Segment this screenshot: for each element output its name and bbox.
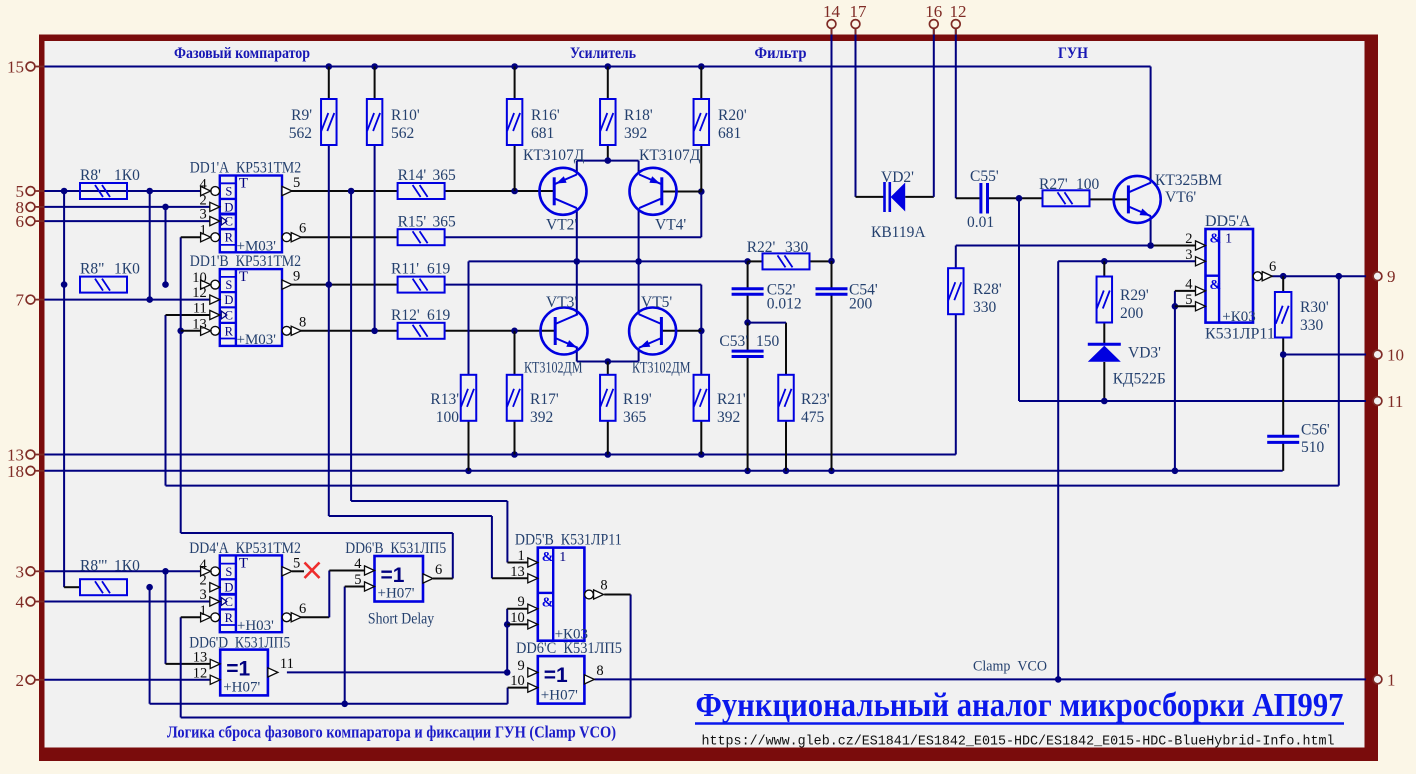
svg-text:R13': R13' [430, 391, 459, 408]
svg-text:=1: =1 [381, 564, 405, 587]
svg-text:R21': R21' [717, 391, 746, 408]
svg-text:+К03: +К03 [1222, 309, 1255, 325]
svg-text:6: 6 [16, 212, 25, 231]
svg-text:DD1'B КР531ТМ2: DD1'B КР531ТМ2 [190, 253, 301, 270]
svg-text:DD5'A: DD5'A [1205, 213, 1251, 230]
svg-text:1: 1 [518, 548, 525, 564]
svg-text:КТ3107Д: КТ3107Д [523, 147, 585, 164]
svg-text:11: 11 [280, 656, 294, 672]
svg-text:+Н03': +Н03' [237, 618, 274, 634]
svg-text:R23': R23' [801, 391, 830, 408]
svg-text:330: 330 [1300, 317, 1324, 334]
svg-text:КТ3107Д: КТ3107Д [639, 147, 701, 164]
svg-text:392: 392 [530, 409, 553, 426]
svg-text:13: 13 [510, 564, 525, 580]
svg-text:КТ325ВМ: КТ325ВМ [1155, 172, 1222, 189]
svg-text:R20': R20' [718, 107, 747, 124]
svg-text:8: 8 [596, 663, 603, 679]
svg-text:10: 10 [1387, 346, 1404, 365]
svg-text:11: 11 [1387, 392, 1403, 411]
svg-text:4: 4 [1185, 276, 1193, 292]
svg-text:10: 10 [510, 673, 525, 689]
svg-text:3: 3 [1185, 247, 1192, 263]
svg-text:1: 1 [1387, 670, 1396, 689]
svg-text:ГУН: ГУН [1058, 45, 1088, 62]
svg-text:510: 510 [1301, 439, 1325, 456]
svg-text:DD4'A КР531ТМ2: DD4'A КР531ТМ2 [189, 540, 301, 557]
svg-text:9: 9 [293, 269, 300, 285]
svg-text:R10': R10' [391, 107, 420, 124]
svg-text:Фазовый компаратор: Фазовый компаратор [174, 45, 310, 62]
svg-text:VT2': VT2' [546, 217, 577, 234]
svg-text:8: 8 [299, 314, 306, 330]
svg-text:DD1'A КР531ТМ2: DD1'A КР531ТМ2 [190, 160, 301, 177]
svg-text:DD6'C К531ЛП5: DD6'C К531ЛП5 [516, 640, 622, 657]
svg-text:1К0: 1К0 [114, 167, 140, 184]
svg-text:9: 9 [518, 594, 525, 610]
svg-text:+М03': +М03' [237, 332, 277, 348]
svg-text:3: 3 [16, 562, 25, 581]
svg-text:VT3': VT3' [546, 294, 577, 311]
svg-text:Логика сброса фазового компара: Логика сброса фазового компаратора и фик… [167, 723, 616, 742]
svg-text:10: 10 [192, 270, 207, 286]
svg-text:13: 13 [192, 316, 207, 332]
svg-text:Фильтр: Фильтр [755, 45, 807, 62]
svg-text:365: 365 [433, 167, 457, 184]
svg-text:3: 3 [200, 587, 207, 603]
svg-text:5: 5 [293, 555, 300, 571]
svg-text:+Н07': +Н07' [223, 679, 260, 695]
svg-text:2: 2 [16, 671, 25, 690]
svg-text:T: T [239, 269, 248, 285]
svg-text:12: 12 [950, 2, 967, 21]
svg-text:+М03': +М03' [237, 238, 277, 254]
svg-text:R27': R27' [1039, 176, 1068, 193]
svg-text:D: D [224, 581, 233, 595]
svg-text:К531ЛР11: К531ЛР11 [1205, 326, 1275, 343]
svg-text:VT6': VT6' [1165, 189, 1196, 206]
svg-text:DD6'B К531ЛП5: DD6'B К531ЛП5 [345, 540, 446, 557]
svg-text:R30': R30' [1300, 299, 1329, 316]
svg-text:330: 330 [973, 299, 997, 316]
svg-text:365: 365 [433, 214, 457, 231]
svg-text:17: 17 [850, 2, 868, 21]
svg-text:200: 200 [1120, 305, 1144, 322]
svg-text:C53': C53' [719, 333, 748, 350]
svg-text:+Н07': +Н07' [541, 688, 578, 704]
svg-text:DD6'D К531ЛП5: DD6'D К531ЛП5 [189, 634, 290, 651]
svg-text:0.012: 0.012 [767, 296, 802, 313]
svg-text:200: 200 [849, 296, 873, 313]
svg-text:11: 11 [193, 301, 207, 317]
svg-text:R17': R17' [530, 391, 559, 408]
svg-text:100: 100 [436, 409, 460, 426]
svg-text:R11': R11' [391, 261, 419, 278]
svg-text:R28': R28' [973, 281, 1002, 298]
svg-text:R: R [225, 324, 234, 338]
svg-text:Clamp VCO: Clamp VCO [973, 659, 1047, 675]
svg-text:1: 1 [200, 603, 207, 619]
svg-text:6: 6 [299, 601, 306, 617]
svg-text:365: 365 [623, 409, 647, 426]
svg-text:475: 475 [801, 409, 825, 426]
svg-text:1: 1 [200, 223, 207, 239]
svg-text:1К0: 1К0 [114, 558, 140, 575]
svg-text:681: 681 [531, 125, 554, 142]
svg-text:13: 13 [193, 649, 208, 665]
svg-text:S: S [225, 565, 232, 579]
svg-text:5: 5 [354, 572, 361, 588]
svg-text:5: 5 [1185, 292, 1192, 308]
svg-text:VD2': VD2' [881, 169, 914, 186]
svg-text:КТ3102ДМ: КТ3102ДМ [524, 359, 583, 376]
svg-text:https://www.gleb.cz/ES1841/ES1: https://www.gleb.cz/ES1841/ES1842_E015-H… [702, 735, 1335, 750]
svg-text:S: S [225, 278, 232, 292]
svg-text:T: T [239, 555, 248, 571]
svg-text:R29': R29' [1120, 287, 1149, 304]
svg-text:R9': R9' [291, 107, 312, 124]
svg-text:C55': C55' [970, 168, 999, 185]
svg-text:R18': R18' [624, 107, 653, 124]
svg-text:619: 619 [427, 307, 451, 324]
svg-text:16: 16 [925, 2, 942, 21]
svg-text:=1: =1 [226, 658, 250, 681]
svg-text:КТ3102ДМ: КТ3102ДМ [632, 359, 691, 376]
svg-text:18: 18 [7, 462, 24, 481]
svg-text:7: 7 [16, 291, 25, 310]
svg-text:392: 392 [717, 409, 740, 426]
svg-text:6: 6 [1269, 259, 1276, 275]
svg-text:+Н07': +Н07' [378, 586, 415, 602]
svg-text:R22': R22' [747, 239, 776, 256]
svg-text:9: 9 [518, 658, 525, 674]
svg-text:6: 6 [299, 221, 306, 237]
svg-text:681: 681 [718, 125, 741, 142]
svg-text:10: 10 [510, 610, 525, 626]
svg-text:3: 3 [200, 207, 207, 223]
svg-text:Short Delay: Short Delay [368, 611, 434, 628]
svg-text:S: S [225, 185, 232, 199]
svg-text:R19': R19' [623, 391, 652, 408]
svg-text:100: 100 [1076, 176, 1100, 193]
svg-text:4: 4 [200, 557, 208, 573]
svg-text:D: D [224, 293, 233, 307]
svg-text:6: 6 [435, 562, 442, 578]
svg-text:562: 562 [289, 125, 312, 142]
svg-text:392: 392 [624, 125, 647, 142]
svg-text:5: 5 [293, 175, 300, 191]
svg-text:R8": R8" [80, 261, 104, 278]
svg-text:R8': R8' [80, 167, 101, 184]
svg-text:T: T [239, 176, 248, 192]
svg-text:562: 562 [391, 125, 414, 142]
svg-text:150: 150 [756, 333, 780, 350]
svg-text:619: 619 [427, 261, 451, 278]
svg-text:VT5': VT5' [641, 294, 672, 311]
svg-text:4: 4 [354, 556, 362, 572]
svg-text:R14': R14' [398, 167, 427, 184]
svg-text:&: & [542, 550, 554, 565]
svg-text:VT4': VT4' [655, 217, 686, 234]
svg-text:VD3': VD3' [1128, 345, 1161, 362]
svg-text:4: 4 [16, 593, 25, 612]
svg-text:R: R [225, 611, 234, 625]
svg-text:R16': R16' [531, 107, 560, 124]
svg-text:2: 2 [1185, 231, 1192, 247]
svg-text:15: 15 [7, 58, 24, 77]
svg-text:1К0: 1К0 [114, 261, 140, 278]
svg-text:&: & [542, 595, 554, 610]
svg-text:КД522Б: КД522Б [1113, 371, 1166, 388]
svg-text:R8"': R8"' [80, 558, 107, 575]
svg-text:=1: =1 [544, 664, 568, 687]
svg-text:&: & [1210, 278, 1222, 293]
svg-text:12: 12 [193, 665, 208, 681]
svg-text:R: R [225, 231, 234, 245]
svg-text:1: 1 [1225, 232, 1232, 247]
svg-text:&: & [1210, 232, 1222, 247]
svg-text:C56': C56' [1301, 422, 1330, 439]
svg-text:1: 1 [559, 550, 566, 565]
svg-text:DD5'B К531ЛР11: DD5'B К531ЛР11 [515, 532, 622, 549]
svg-text:Функциональный аналог микросбо: Функциональный аналог микросборки АП997 [696, 687, 1344, 724]
svg-text:330: 330 [785, 239, 809, 256]
svg-text:14: 14 [823, 2, 841, 21]
svg-text:КВ119А: КВ119А [871, 224, 926, 241]
svg-text:R12': R12' [391, 307, 420, 324]
svg-text:8: 8 [600, 578, 607, 594]
svg-text:0.01: 0.01 [967, 214, 994, 231]
svg-text:D: D [224, 200, 233, 214]
svg-text:Усилитель: Усилитель [570, 45, 636, 62]
svg-text:4: 4 [200, 177, 208, 193]
svg-text:12: 12 [192, 285, 207, 301]
svg-text:R15': R15' [398, 214, 427, 231]
svg-text:9: 9 [1387, 267, 1396, 286]
